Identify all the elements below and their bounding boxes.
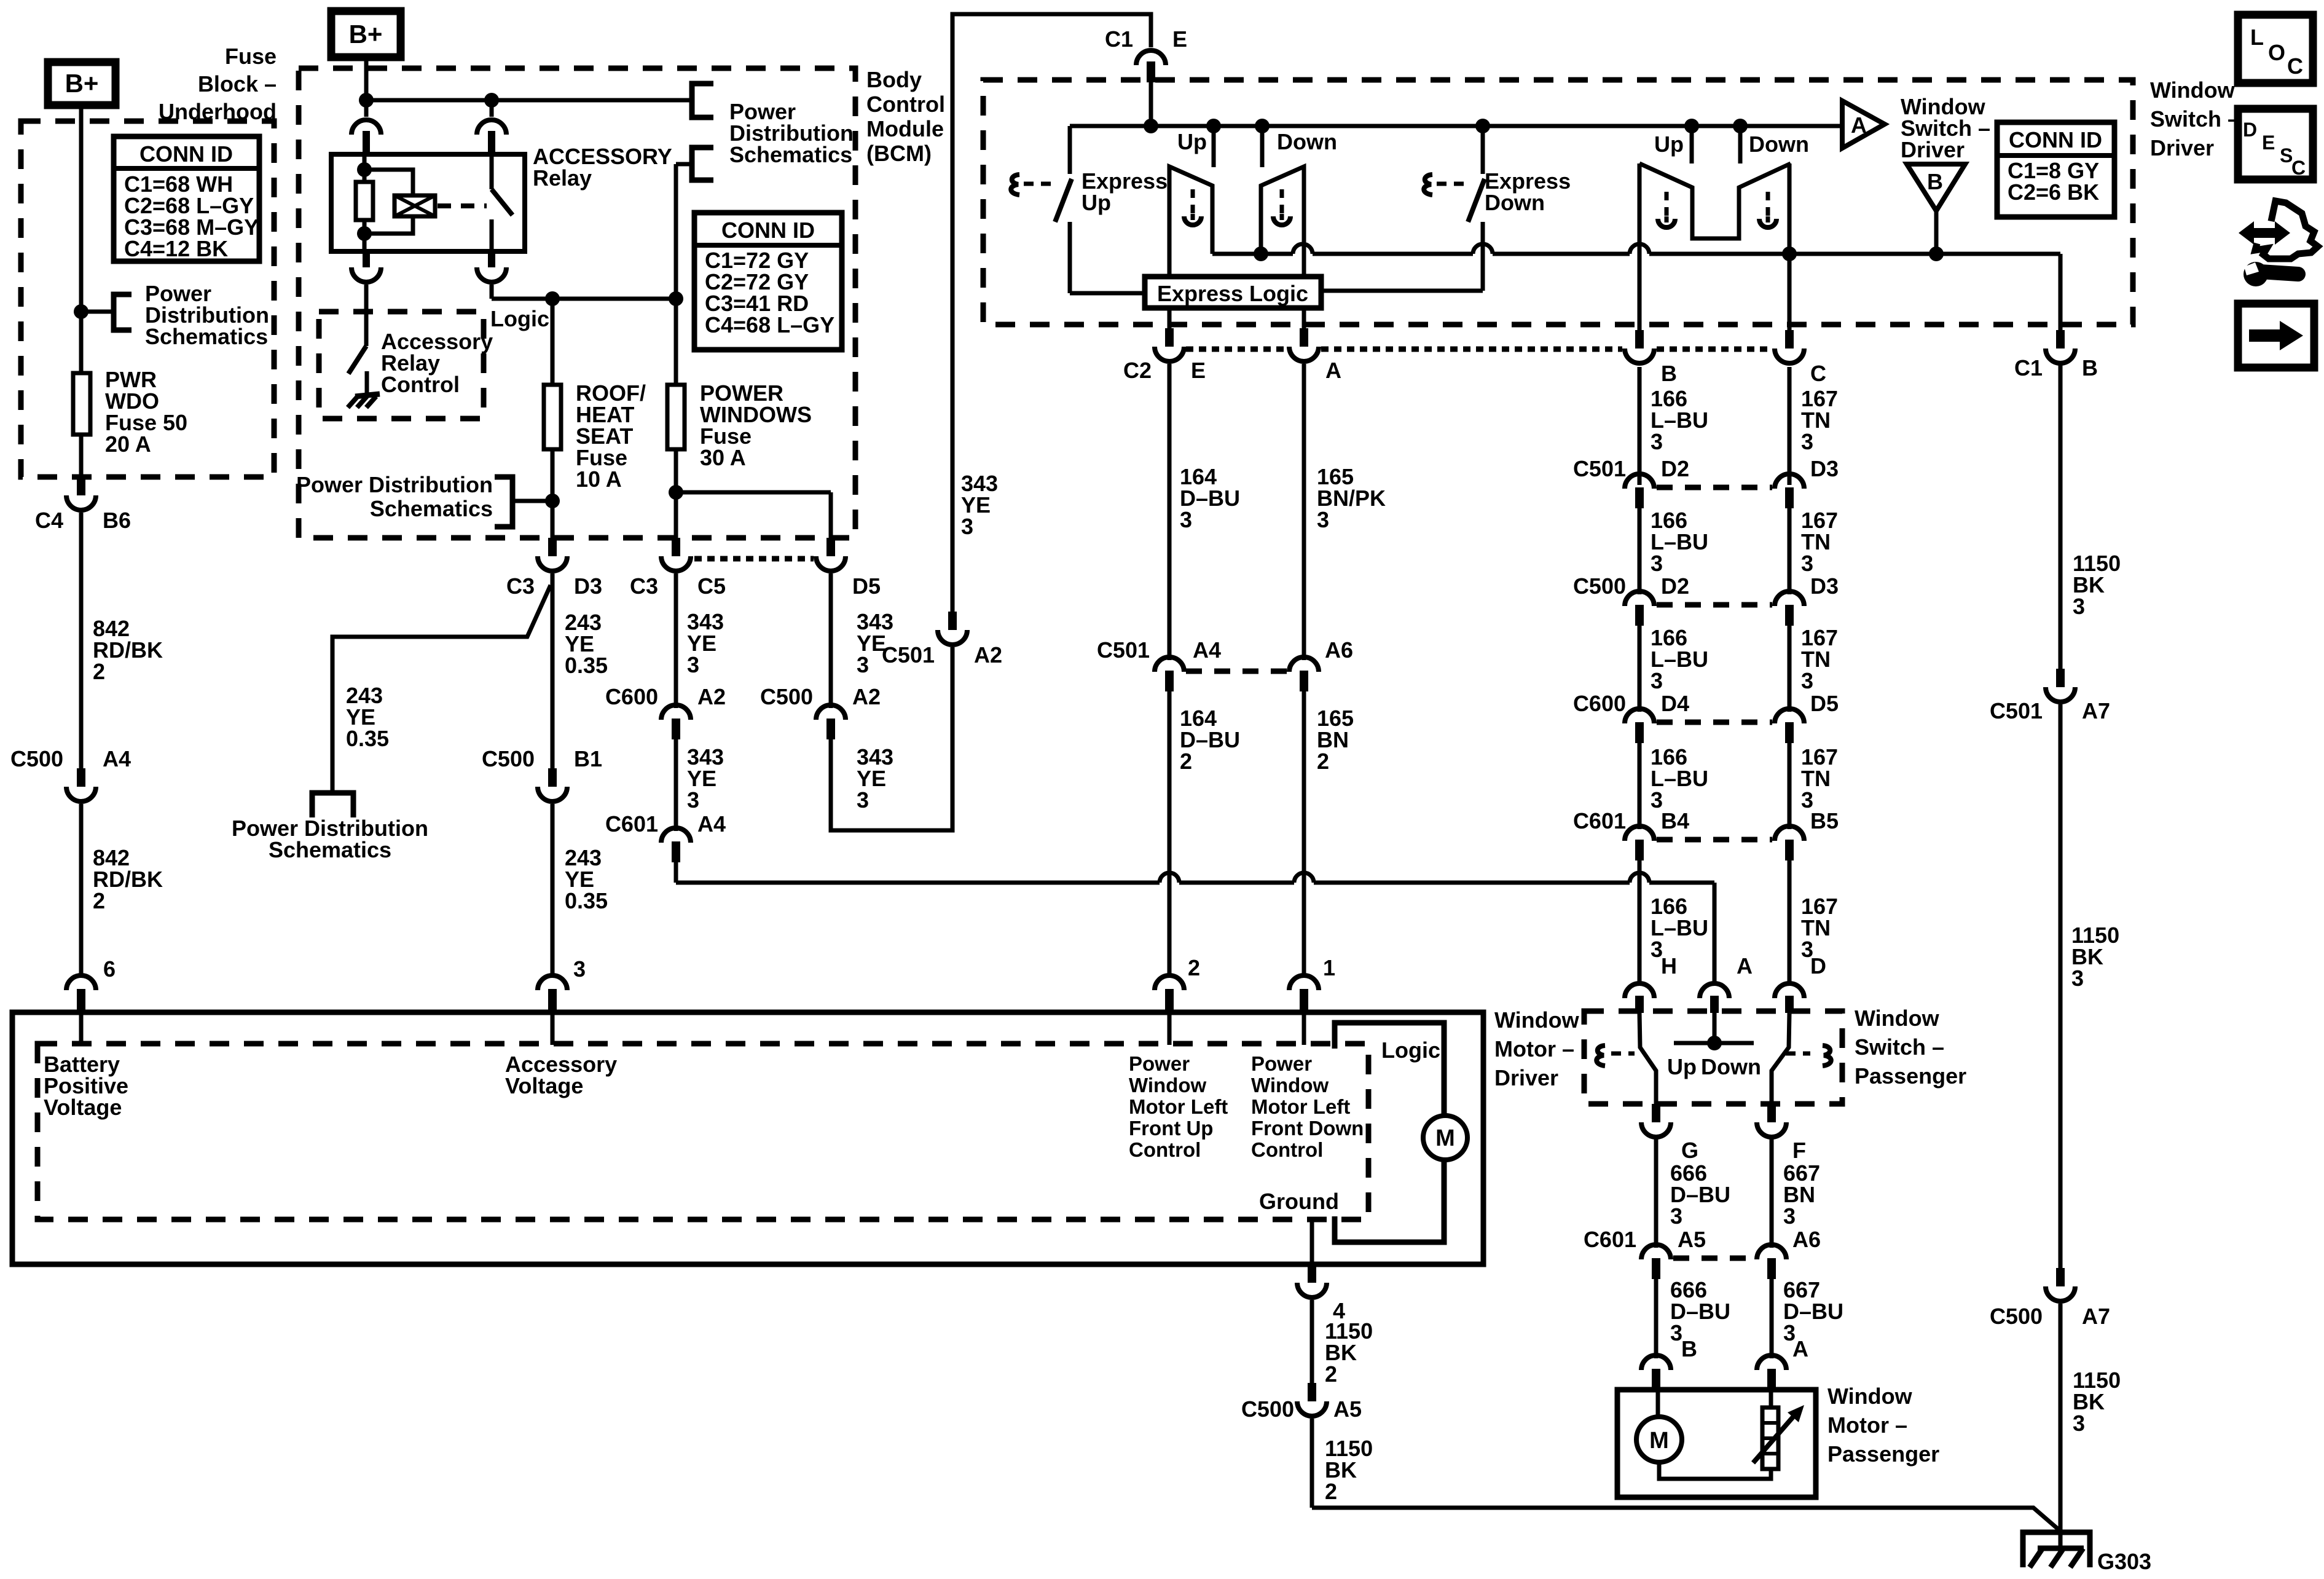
wire 164 segment 2 bbox=[1168, 691, 1172, 975]
label 166 L-BU 3 (2) bbox=[1651, 508, 1708, 576]
svg-text:C5: C5 bbox=[697, 573, 726, 599]
triangle A window switch driver bbox=[1842, 101, 1885, 148]
wire 667 run2 bbox=[1770, 1279, 1774, 1358]
wire 165 into motor box bbox=[1302, 1012, 1306, 1045]
svg-text:CONN ID: CONN ID bbox=[721, 218, 815, 243]
wire 165 segment 1 bbox=[1302, 308, 1306, 660]
label Up (driver) bbox=[1177, 129, 1207, 154]
label 666 D-BU 3 (1) bbox=[1670, 1160, 1730, 1229]
svg-text:Front Down: Front Down bbox=[1251, 1117, 1364, 1140]
svg-text:M: M bbox=[1649, 1428, 1669, 1454]
connector A (passenger switch) bbox=[1700, 953, 1753, 1013]
branch 243 YE to power distribution bbox=[332, 585, 551, 792]
label 343 YE 3 (D5) bbox=[857, 609, 893, 677]
connector C501 A4 (164) bbox=[1097, 637, 1221, 691]
passenger switch common bbox=[1674, 1013, 1754, 1050]
page link bracket Power Distribution (inside BCM) bbox=[495, 477, 560, 527]
connector C501 D2 bbox=[1573, 456, 1689, 508]
svg-text:3: 3 bbox=[1783, 1203, 1796, 1229]
page link bracket Power Distribution upper (BCM) bbox=[692, 84, 713, 117]
label Express Down bbox=[1485, 168, 1571, 215]
connector C601 B5 bbox=[1775, 808, 1839, 860]
svg-text:C600: C600 bbox=[1573, 691, 1626, 716]
svg-text:Driver: Driver bbox=[1901, 137, 1965, 162]
svg-text:Schematics: Schematics bbox=[145, 324, 268, 349]
label Power Distribution Schematics (fuse block) bbox=[145, 281, 269, 349]
svg-text:Switch –: Switch – bbox=[2150, 106, 2240, 132]
label Power Distribution Schematics (BCM) bbox=[729, 99, 854, 167]
wire 1150 BK to ground run bbox=[1310, 1419, 1314, 1508]
label ACCESSORY Relay bbox=[533, 144, 672, 191]
relay connector top right bbox=[477, 100, 506, 154]
svg-text:E: E bbox=[1191, 358, 1206, 383]
svg-text:E: E bbox=[2262, 132, 2275, 154]
wire C500 A2 run bbox=[829, 573, 833, 708]
svg-text:Motor –: Motor – bbox=[1827, 1412, 1907, 1438]
svg-text:G303: G303 bbox=[2097, 1549, 2151, 1574]
svg-text:Logic: Logic bbox=[490, 306, 549, 331]
label 167 TN 3 (5) bbox=[1801, 894, 1838, 962]
svg-text:Down: Down bbox=[1277, 129, 1337, 154]
page link symbol power distribution (243 YE) bbox=[312, 793, 353, 817]
connector D bbox=[1775, 953, 1826, 1013]
Fuse Block - Underhood dashed box bbox=[21, 121, 274, 477]
svg-text:B6: B6 bbox=[103, 508, 131, 533]
wire 842 RD/BK segment 2 bbox=[79, 804, 84, 977]
wire 1150 BK segment bbox=[1310, 1300, 1314, 1383]
svg-text:A: A bbox=[1325, 358, 1341, 383]
label Up Down (passenger switch) bbox=[1667, 1054, 1761, 1079]
connector C4 B6 bbox=[35, 477, 131, 533]
svg-text:Relay: Relay bbox=[533, 165, 592, 191]
label Power Window Motor Left Front Down Control bbox=[1251, 1052, 1364, 1161]
svg-text:2: 2 bbox=[93, 888, 105, 913]
label Window Switch - Driver (triangle A) bbox=[1901, 94, 1990, 162]
wire 666 run1 bbox=[1654, 1137, 1659, 1248]
accessory relay box bbox=[331, 154, 525, 251]
wire 167 run4 bbox=[1788, 743, 1792, 829]
svg-text:Control: Control bbox=[381, 372, 460, 397]
svg-text:2: 2 bbox=[1325, 1479, 1337, 1504]
Window Switch - Passenger dashed box bbox=[1584, 1011, 1842, 1104]
svg-text:A6: A6 bbox=[1325, 637, 1353, 663]
dashed link C501 D2-D3 bbox=[1657, 485, 1772, 490]
label 166 L-BU 3 (4) bbox=[1651, 744, 1708, 813]
accessory relay control switch bbox=[348, 346, 366, 374]
svg-text:H: H bbox=[1661, 953, 1677, 979]
wire C1 E to switch rail bbox=[1149, 82, 1153, 126]
svg-text:0.35: 0.35 bbox=[346, 726, 389, 751]
Window Switch - Driver dashed box bbox=[983, 80, 2133, 325]
ground G303 bbox=[2023, 1532, 2151, 1574]
connector C3 C5 bbox=[630, 538, 726, 599]
passenger switch up blade bbox=[1639, 1013, 1656, 1104]
wire 1150 BK right side middle bbox=[2059, 704, 2063, 1268]
svg-text:D: D bbox=[2243, 119, 2257, 141]
wire 166 run3 bbox=[1638, 626, 1642, 712]
connector pin 6 battery positive bbox=[66, 956, 116, 1011]
label 1150 BK 2 (2) bbox=[1325, 1436, 1373, 1504]
dotted connector row line C2 bbox=[1186, 347, 1772, 352]
svg-text:C601: C601 bbox=[1584, 1227, 1636, 1252]
wire 166 run2 bbox=[1638, 508, 1642, 594]
wire 1150 BK right side lower bbox=[2059, 1304, 2063, 1531]
junction power windows to D5 bbox=[669, 485, 831, 540]
label 842 RD/BK 2 (2) bbox=[93, 845, 163, 913]
svg-text:2: 2 bbox=[93, 659, 105, 684]
svg-text:3: 3 bbox=[1801, 668, 1813, 693]
Window Motor - Driver box bbox=[12, 1012, 1483, 1264]
relay coil resistor bbox=[356, 154, 373, 251]
connector C501 A6 (165) bbox=[1289, 637, 1353, 691]
svg-text:3: 3 bbox=[1180, 507, 1192, 532]
wire B+ to PWR WDO fuse bbox=[79, 105, 84, 373]
label 165 BN 2 bbox=[1317, 706, 1354, 774]
svg-text:2: 2 bbox=[1180, 749, 1192, 774]
relay coil actuator dashes bbox=[438, 203, 487, 208]
connector C500 D2 bbox=[1573, 573, 1689, 626]
label Power Window Motor Left Front Up Control bbox=[1129, 1052, 1228, 1161]
svg-text:B: B bbox=[1681, 1336, 1697, 1361]
svg-text:Window: Window bbox=[1827, 1384, 1913, 1409]
label 343 YE 3 (3) bbox=[857, 744, 893, 813]
svg-text:D2: D2 bbox=[1661, 456, 1689, 481]
label Accessory Voltage bbox=[505, 1052, 617, 1098]
svg-text:A2: A2 bbox=[974, 642, 1002, 667]
connector C601 A4 bbox=[605, 811, 726, 862]
svg-text:Switch –: Switch – bbox=[1855, 1034, 1944, 1060]
connector C (switch driver C2) bbox=[1775, 330, 1826, 386]
triangle B window switch driver bbox=[1907, 164, 1965, 211]
svg-text:Motor –: Motor – bbox=[1494, 1036, 1574, 1061]
svg-text:A: A bbox=[1851, 112, 1867, 138]
label 1150 BK 3 (2) bbox=[2071, 923, 2119, 991]
svg-text:Driver: Driver bbox=[1494, 1065, 1558, 1090]
svg-text:D: D bbox=[1810, 953, 1826, 979]
label 165 BN/PK 3 bbox=[1317, 464, 1386, 532]
wire 667 run1 bbox=[1770, 1137, 1774, 1248]
svg-text:A5: A5 bbox=[1678, 1227, 1706, 1252]
wire B+ down to rail bbox=[364, 57, 369, 101]
svg-text:Power: Power bbox=[1251, 1052, 1312, 1075]
label 343 YE 3 (4) bbox=[961, 471, 998, 539]
passenger switch down blade bbox=[1772, 1013, 1789, 1104]
CONN ID table (fuse block) bbox=[114, 136, 259, 261]
svg-text:Window: Window bbox=[1494, 1007, 1580, 1033]
svg-text:C2: C2 bbox=[1123, 358, 1152, 383]
passenger down wire to C bbox=[1788, 163, 1792, 334]
connector C600 A2 bbox=[605, 684, 726, 739]
label 166 L-BU 3 (1) bbox=[1651, 386, 1708, 454]
svg-text:Down: Down bbox=[1749, 132, 1809, 157]
label Power Distribution Schematics (inside BCM) bbox=[296, 472, 493, 521]
svg-text:B: B bbox=[1927, 169, 1943, 194]
svg-text:Power Distribution: Power Distribution bbox=[296, 472, 493, 497]
svg-text:Voltage: Voltage bbox=[505, 1073, 583, 1098]
wire 1150 BK right side upper bbox=[2059, 363, 2063, 669]
label 166 L-BU 3 (5) bbox=[1651, 894, 1708, 962]
svg-text:Driver: Driver bbox=[2150, 135, 2214, 160]
svg-text:C501: C501 bbox=[1097, 637, 1150, 663]
dashed link C501 A4-A6 bbox=[1186, 669, 1287, 674]
wire 166 run4 bbox=[1638, 743, 1642, 829]
connector pin 3 accessory voltage bbox=[538, 956, 586, 1011]
svg-text:Block –: Block – bbox=[198, 71, 277, 96]
dashed link C601 A5-A6 bbox=[1673, 1256, 1754, 1261]
wire down-right to logic box bbox=[1302, 255, 1306, 277]
label Up (passenger) bbox=[1654, 132, 1684, 157]
svg-text:A5: A5 bbox=[1333, 1396, 1362, 1422]
svg-text:B+: B+ bbox=[65, 69, 99, 98]
driver module dashed box bbox=[37, 1044, 1368, 1219]
label Window Motor - Passenger bbox=[1827, 1384, 1939, 1467]
svg-text:Front Up: Front Up bbox=[1129, 1117, 1213, 1140]
svg-text:G: G bbox=[1681, 1138, 1698, 1163]
label 243 YE 0.35 (1) bbox=[565, 610, 608, 678]
CONN ID table (window switch driver) bbox=[1997, 122, 2114, 217]
svg-text:D5: D5 bbox=[1810, 691, 1839, 716]
CONN ID table (BCM) bbox=[694, 213, 842, 350]
connector C500 A5 bbox=[1241, 1383, 1362, 1422]
connector C601 A6 (passenger) bbox=[1757, 1227, 1821, 1279]
svg-text:3: 3 bbox=[687, 787, 699, 813]
icon next page arrow bbox=[2238, 304, 2314, 368]
passenger down contact stub bbox=[1738, 126, 1743, 163]
icon DESC bbox=[2238, 109, 2313, 179]
switch feed rail bbox=[1070, 119, 1842, 133]
connector D5 bbox=[816, 538, 881, 599]
wire bus down to C1 B bbox=[2059, 254, 2063, 330]
label 167 TN 3 (1) bbox=[1801, 386, 1838, 454]
connector F bbox=[1757, 1104, 1806, 1163]
label 1150 BK 3 (1) bbox=[2073, 551, 2121, 619]
svg-text:D2: D2 bbox=[1661, 573, 1689, 599]
svg-text:Fuse: Fuse bbox=[225, 44, 277, 69]
svg-text:C1: C1 bbox=[1105, 26, 1133, 52]
icon wrench bbox=[2239, 201, 2318, 286]
wire 164 segment 1 bbox=[1168, 308, 1172, 660]
svg-text:B5: B5 bbox=[1810, 808, 1839, 833]
svg-text:3: 3 bbox=[1801, 551, 1813, 576]
svg-text:3: 3 bbox=[2071, 966, 2084, 991]
svg-text:Motor Left: Motor Left bbox=[1251, 1095, 1350, 1118]
svg-text:B: B bbox=[2082, 355, 2098, 380]
relay connector bottom left bbox=[351, 251, 381, 346]
switch output bus bbox=[1212, 244, 2060, 261]
label 1150 BK 2 (1) bbox=[1325, 1318, 1373, 1387]
svg-text:A: A bbox=[1737, 953, 1753, 979]
svg-text:B: B bbox=[1661, 361, 1677, 386]
svg-text:Power: Power bbox=[1129, 1052, 1190, 1075]
connector C500 D3 bbox=[1775, 573, 1839, 626]
driver down contact stub bbox=[1260, 126, 1265, 167]
svg-text:C1: C1 bbox=[2014, 355, 2043, 380]
fuse ROOF/HEAT SEAT 10A bbox=[544, 299, 561, 540]
driver up contact stub bbox=[1212, 126, 1216, 167]
svg-text:A2: A2 bbox=[697, 684, 726, 709]
Body Control Module dashed box bbox=[299, 68, 855, 538]
label 343 YE 3 (1) bbox=[687, 609, 724, 677]
svg-text:Schematics: Schematics bbox=[370, 496, 493, 521]
wire 343 segment b bbox=[674, 739, 678, 831]
B+ battery feed symbol (BCM) bbox=[331, 11, 401, 57]
connector C501 A2 bbox=[882, 612, 1002, 667]
svg-text:Underhood: Underhood bbox=[159, 99, 277, 124]
label 164 D-BU 2 bbox=[1180, 706, 1240, 774]
svg-text:Window: Window bbox=[1129, 1074, 1206, 1097]
svg-text:D4: D4 bbox=[1661, 691, 1689, 716]
svg-text:C: C bbox=[2291, 157, 2306, 179]
label 243 YE 0.35 (branch) bbox=[346, 683, 389, 751]
svg-text:A: A bbox=[1792, 1336, 1808, 1361]
svg-text:(BCM): (BCM) bbox=[866, 141, 932, 166]
connector C601 B4 bbox=[1573, 808, 1689, 860]
svg-text:C501: C501 bbox=[1990, 698, 2043, 723]
Express Logic box bbox=[1145, 277, 1321, 308]
label 167 TN 3 (4) bbox=[1801, 744, 1838, 813]
ground run wire bbox=[1312, 1508, 2060, 1531]
label 167 TN 3 (3) bbox=[1801, 625, 1838, 693]
svg-text:C601: C601 bbox=[1573, 808, 1626, 833]
svg-text:Module: Module bbox=[866, 116, 944, 141]
label PWR WDO Fuse 50 20A bbox=[105, 367, 187, 457]
wire 166 run5 bbox=[1638, 860, 1642, 983]
label 243 YE 0.35 (2) bbox=[565, 845, 608, 913]
connector 4 (motor ground) bbox=[1297, 1264, 1345, 1323]
express up switch bbox=[1011, 126, 1072, 293]
connector C1 E (BCM) bbox=[1105, 26, 1187, 82]
BCM feed rail bbox=[359, 93, 692, 108]
fuse POWER WINDOWS 30A bbox=[667, 299, 685, 540]
svg-text:C500: C500 bbox=[1573, 573, 1626, 599]
svg-text:C500: C500 bbox=[1990, 1304, 2043, 1329]
connector B (switch driver C2) bbox=[1625, 330, 1677, 386]
relay connector top left bbox=[351, 100, 381, 154]
svg-text:3: 3 bbox=[961, 514, 973, 539]
svg-text:A7: A7 bbox=[2082, 698, 2110, 723]
dashed link C500 D2-D3 bbox=[1657, 602, 1772, 608]
svg-text:Control: Control bbox=[1251, 1138, 1323, 1161]
wire 167 run3 bbox=[1788, 626, 1792, 712]
svg-text:3: 3 bbox=[2073, 1411, 2085, 1436]
ground wire from driver module bbox=[1310, 1219, 1314, 1264]
svg-text:Passenger: Passenger bbox=[1855, 1063, 1966, 1089]
wire 343 YE to BCM C1 E bbox=[952, 14, 1151, 613]
page link bracket Power Distribution (fuse block) bbox=[114, 294, 132, 330]
label Power Distribution Schematics (branch) bbox=[232, 816, 428, 862]
label 1150 BK 3 (3) bbox=[2073, 1368, 2121, 1436]
page link bracket Power Distribution lower (BCM) bbox=[676, 148, 713, 180]
svg-text:A4: A4 bbox=[697, 811, 726, 837]
Logic box (driver motor) bbox=[1335, 1023, 1444, 1242]
svg-text:3: 3 bbox=[687, 652, 699, 677]
wire express up to logic bbox=[1070, 291, 1145, 296]
svg-text:D3: D3 bbox=[1810, 456, 1839, 481]
connector C600 D4 bbox=[1573, 691, 1689, 743]
connector C600 D5 bbox=[1775, 691, 1839, 743]
svg-text:Express Logic: Express Logic bbox=[1157, 281, 1308, 306]
wire 243 YE segment 2 bbox=[551, 573, 555, 977]
svg-text:C2=6 BK: C2=6 BK bbox=[2008, 179, 2099, 205]
label Accessory Relay Control bbox=[381, 329, 493, 397]
svg-text:3: 3 bbox=[1651, 668, 1663, 693]
svg-text:3: 3 bbox=[1317, 507, 1329, 532]
wire into driver box (battery) bbox=[79, 1012, 84, 1045]
svg-text:Passenger: Passenger bbox=[1827, 1441, 1939, 1467]
Accessory Relay Control dashed box bbox=[319, 312, 484, 419]
label ROOF/HEAT SEAT Fuse 10A bbox=[576, 380, 646, 492]
svg-text:Window: Window bbox=[1251, 1074, 1329, 1097]
dotted link C5-D5 bbox=[694, 556, 814, 562]
connector pin 1 down control bbox=[1289, 955, 1335, 1011]
connector C2 E bbox=[1123, 328, 1206, 383]
connector C500 A4 bbox=[10, 746, 131, 801]
svg-text:Window: Window bbox=[2150, 77, 2236, 103]
svg-text:D3: D3 bbox=[574, 573, 602, 599]
svg-text:2: 2 bbox=[1325, 1361, 1337, 1387]
svg-text:Motor Left: Motor Left bbox=[1129, 1095, 1228, 1118]
relay switch bbox=[492, 154, 512, 251]
label Logic (BCM) bbox=[490, 306, 549, 331]
svg-text:Schematics: Schematics bbox=[729, 142, 852, 167]
connector C500 A7 bbox=[1990, 1268, 2110, 1329]
connector C1 B bbox=[2014, 330, 2098, 380]
dashed link C600 D4-D5 bbox=[1657, 720, 1772, 725]
svg-text:Up: Up bbox=[1667, 1054, 1697, 1079]
connector C501 A7 bbox=[1990, 669, 2110, 723]
label POWER WINDOWS Fuse 30A bbox=[700, 380, 812, 470]
label 164 D-BU 3 bbox=[1180, 464, 1240, 532]
svg-text:3: 3 bbox=[1801, 429, 1813, 454]
svg-text:A2: A2 bbox=[852, 684, 881, 709]
svg-text:2: 2 bbox=[1317, 749, 1329, 774]
wire up-left to logic box bbox=[1168, 254, 1172, 277]
svg-text:C4=12 BK: C4=12 BK bbox=[124, 236, 228, 261]
relay connector bottom right bbox=[477, 251, 506, 299]
svg-text:Down: Down bbox=[1485, 190, 1545, 215]
svg-text:CONN ID: CONN ID bbox=[139, 141, 233, 167]
label 666 D-BU 3 (2) bbox=[1670, 1277, 1730, 1345]
svg-text:D3: D3 bbox=[1810, 573, 1839, 599]
dashed link C601 B4-B5 bbox=[1657, 837, 1772, 843]
connector A (BCM C2) bbox=[1289, 328, 1341, 383]
svg-text:Window: Window bbox=[1855, 1006, 1940, 1031]
svg-text:Control: Control bbox=[866, 92, 945, 117]
label Body Control Module (BCM) bbox=[866, 67, 945, 166]
svg-text:Up: Up bbox=[1082, 190, 1111, 215]
connector A (motor passenger) bbox=[1757, 1336, 1808, 1390]
wire express down to logic bbox=[1321, 289, 1483, 293]
svg-text:Control: Control bbox=[1129, 1138, 1201, 1161]
svg-text:A4: A4 bbox=[103, 746, 131, 771]
icon LOC bbox=[2238, 15, 2313, 83]
wire 167 run2 bbox=[1788, 508, 1792, 594]
express down switch bbox=[1424, 126, 1485, 291]
passenger up contact bbox=[1639, 163, 1791, 238]
motor M (passenger) bbox=[1636, 1390, 1771, 1479]
connector C501 D3 bbox=[1775, 456, 1839, 508]
wire relay out to fuses bbox=[492, 291, 683, 306]
relay coil bbox=[364, 170, 435, 234]
label Fuse Block - Underhood bbox=[159, 44, 277, 124]
connector B (motor passenger) bbox=[1641, 1336, 1697, 1390]
svg-text:D5: D5 bbox=[852, 573, 881, 599]
svg-text:C500: C500 bbox=[1241, 1396, 1294, 1422]
connector pin 2 up control bbox=[1155, 955, 1200, 1011]
svg-text:3: 3 bbox=[857, 787, 869, 813]
wire 343 to logic bus bbox=[674, 862, 678, 883]
label 166 L-BU 3 (3) bbox=[1651, 625, 1708, 693]
